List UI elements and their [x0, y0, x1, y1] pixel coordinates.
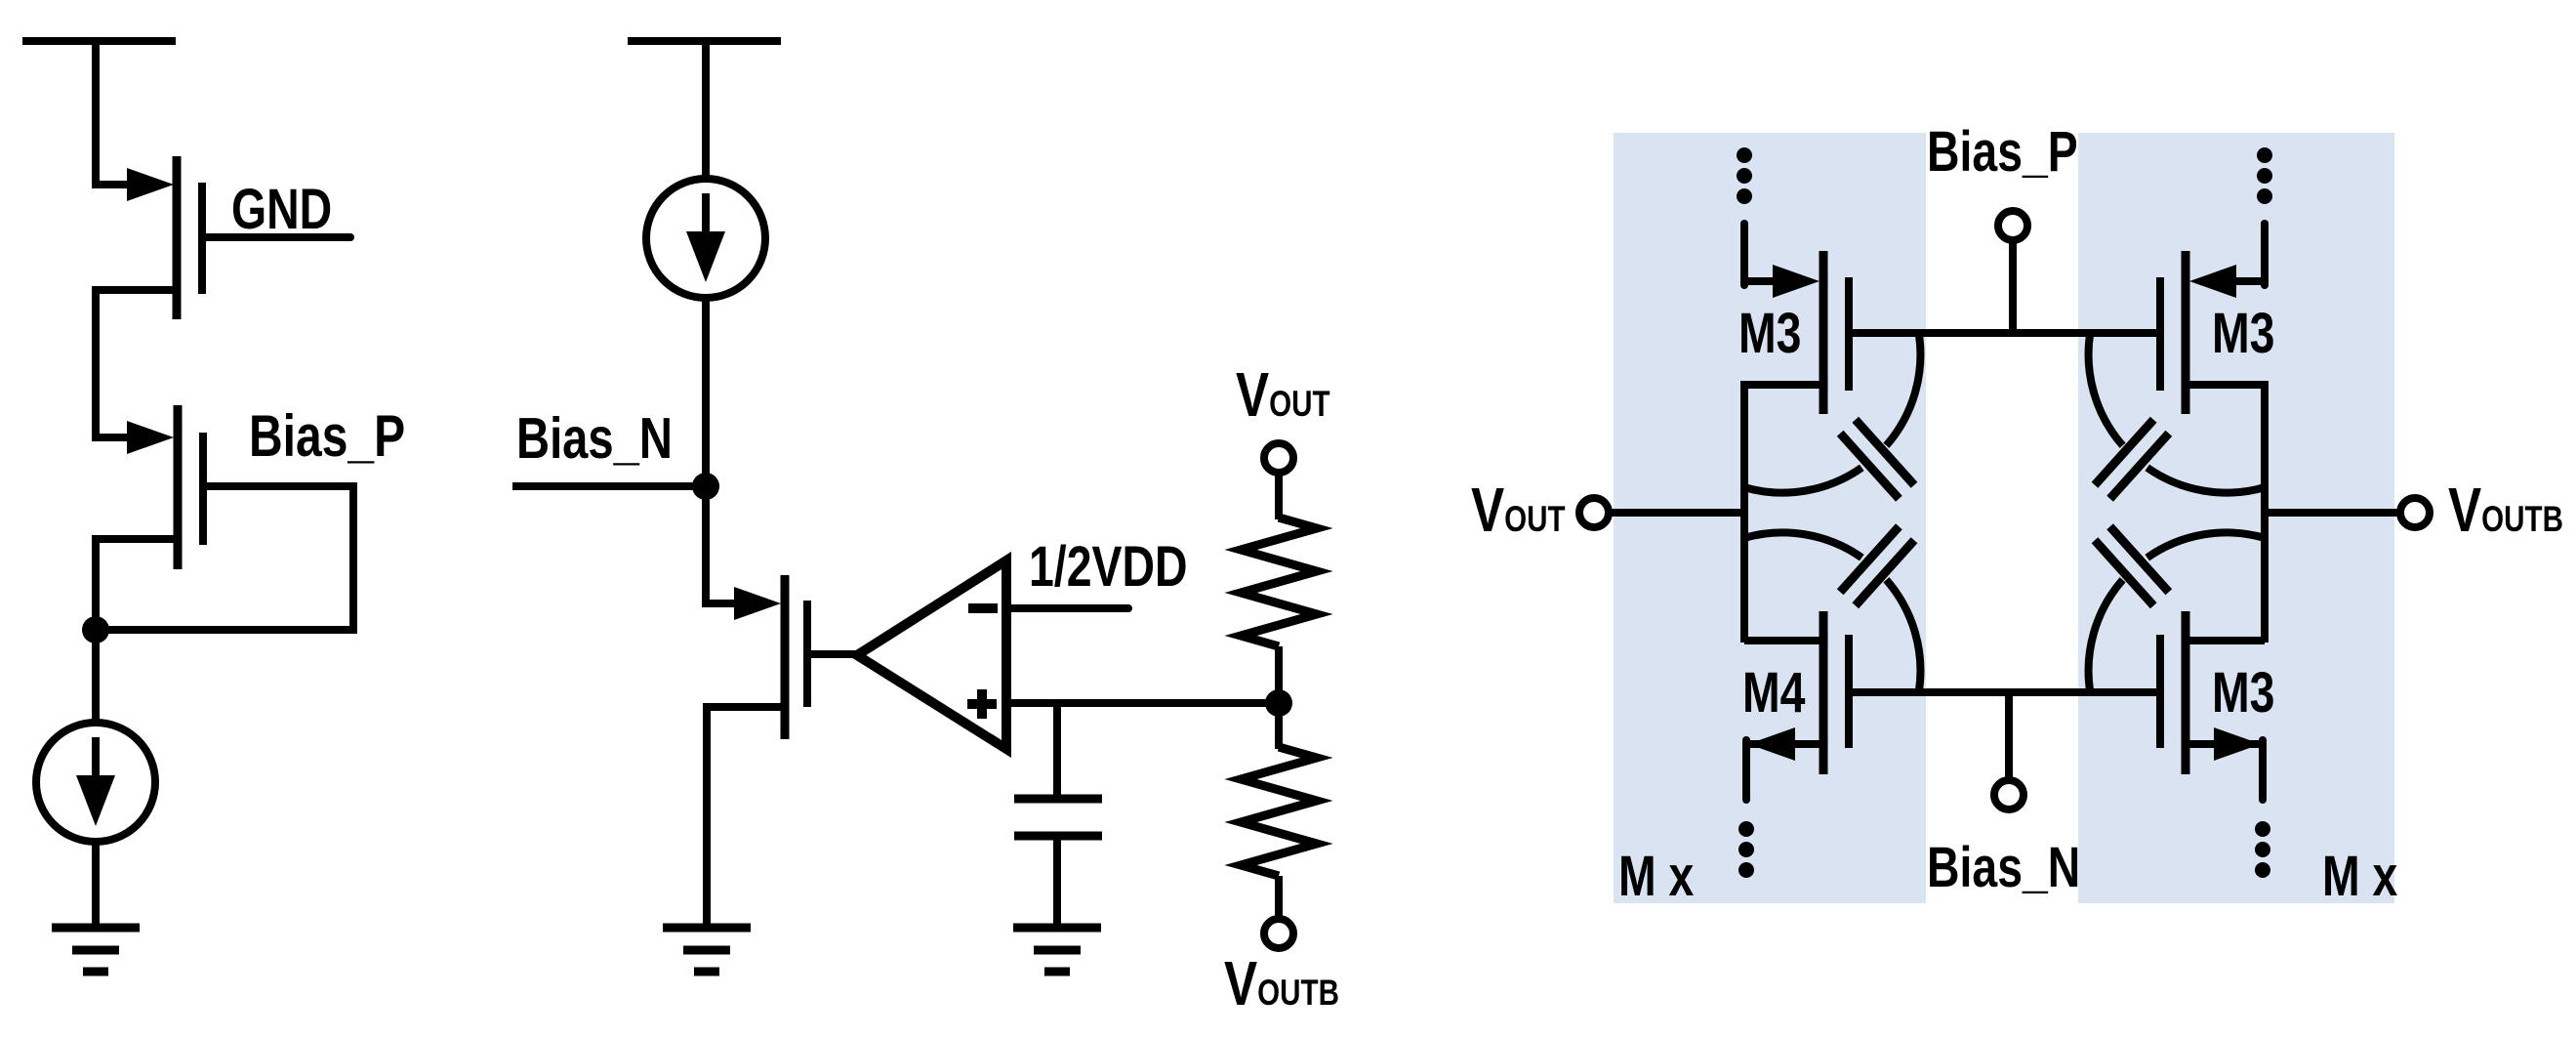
ground symbol — [52, 924, 140, 933]
wire — [703, 703, 711, 928]
op-amp plus sign — [967, 699, 997, 709]
bottom-left quadrant transistor M4 with flying capacitor — [1738, 526, 1920, 878]
top-right quadrant transistor M3 with flying capacitor — [2089, 147, 2272, 499]
terminal Bias_P — [1998, 211, 2027, 240]
wire — [1275, 876, 1283, 919]
inverting input wire — [1010, 604, 1128, 612]
terminal V_OUT — [1264, 443, 1293, 473]
svg-text:M x: M x — [2322, 845, 2397, 908]
drain arrow NMOS — [734, 587, 781, 620]
wire — [92, 840, 100, 928]
capacitor C1 plates — [1014, 795, 1102, 804]
svg-text:M4: M4 — [1742, 661, 1805, 725]
gate-to-drain feedback wire — [102, 486, 353, 630]
svg-text:Bias_P: Bias_P — [1927, 120, 2078, 184]
top gate line (Bias_P) — [1849, 329, 2160, 337]
node junction Bias_N — [692, 473, 719, 500]
left vertical bus wire — [1740, 381, 1748, 643]
current source I1 — [36, 723, 155, 842]
source arrow transistor top-left — [127, 168, 174, 201]
op-amp minus sign — [968, 603, 998, 613]
svg-text:Bias_N: Bias_N — [1927, 836, 2080, 899]
bottom gate line (Bias_N) — [1849, 688, 2160, 696]
terminal Bias_N — [1994, 780, 2024, 809]
bottom-right quadrant transistor M3 with flying capacitor — [2089, 526, 2270, 878]
wire — [1275, 715, 1283, 749]
shaded column left (M x stack) — [1614, 133, 1926, 903]
wire — [92, 535, 100, 630]
terminal V_OUTB — [2400, 498, 2430, 527]
resistor R2 — [1241, 747, 1317, 876]
drain lead — [96, 535, 178, 543]
V_OUT wire — [1611, 509, 1744, 517]
wire — [702, 37, 710, 181]
wire — [702, 296, 710, 607]
node junction divider mid — [1265, 689, 1292, 717]
transistor (PMOS, gate GND) channel bar — [173, 156, 182, 319]
Bias_N input wire — [512, 482, 706, 490]
svg-text:M x: M x — [1618, 845, 1694, 908]
wire — [1053, 836, 1061, 928]
transistor (PMOS, gate GND) gate bar — [198, 183, 206, 294]
ground symbol — [1013, 924, 1101, 933]
drain lead — [706, 600, 740, 607]
gate lead to op-amp output — [807, 650, 859, 658]
node junction — [82, 616, 109, 643]
V_OUTB wire — [2265, 509, 2398, 517]
source lead — [707, 703, 785, 711]
svg-text:GND: GND — [231, 178, 332, 241]
wire — [92, 286, 100, 441]
transistor (PMOS, diode-connected Bias_P) channel bar — [174, 405, 183, 569]
svg-text:Bias_P: Bias_P — [249, 403, 405, 469]
wire to M-top source — [96, 181, 133, 188]
wire — [92, 37, 100, 188]
wire — [92, 630, 100, 725]
wire — [1275, 475, 1283, 519]
right vertical bus wire — [2261, 381, 2269, 643]
svg-text:M3: M3 — [1738, 302, 1801, 365]
current source I2 — [646, 179, 765, 298]
svg-text:M3: M3 — [2212, 661, 2274, 725]
NMOS gate bar — [803, 601, 811, 707]
drain lead — [96, 286, 177, 294]
source arrow transistor Bias_P — [127, 421, 174, 454]
power rail (left schematic) — [22, 37, 176, 45]
shaded column right (M x stack) — [2078, 133, 2394, 903]
ground symbol — [663, 924, 751, 933]
terminal V_OUTB — [1264, 919, 1293, 948]
resistor R1 — [1241, 518, 1317, 646]
NMOS pass transistor channel bar — [781, 575, 790, 739]
svg-text:1/2VDD: 1/2VDD — [1029, 535, 1187, 599]
op-amp U1 triangle — [857, 560, 1006, 749]
GND gate lead — [202, 233, 350, 241]
svg-text:M3: M3 — [2212, 302, 2274, 365]
wire — [1275, 646, 1283, 691]
power rail (middle schematic) — [628, 37, 781, 45]
top-left quadrant transistor M3 with flying capacitor — [1737, 147, 1920, 499]
transistor Bias_P gate bar — [199, 433, 207, 545]
wire to Bias_P transistor source — [96, 434, 133, 441]
Bias_N stem wire — [2005, 692, 2013, 781]
terminal V_OUT — [1579, 498, 1609, 527]
wire to capacitor — [1053, 703, 1061, 799]
non-inverting input wire to divider — [1010, 699, 1279, 707]
svg-text:Bias_N: Bias_N — [516, 407, 673, 471]
Bias_P stem wire — [2009, 239, 2017, 333]
